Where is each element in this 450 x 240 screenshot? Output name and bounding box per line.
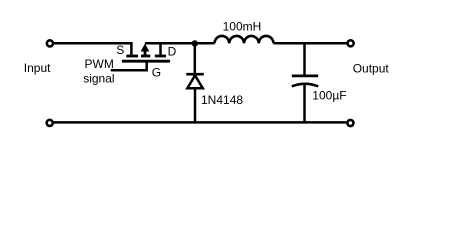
node A: diode junction dot [192, 40, 198, 46]
wire: diode anode to bottom rail [194, 88, 197, 122]
terminal: output bottom (circle) [347, 120, 353, 126]
terminal: input bottom (circle) [47, 120, 53, 126]
svg-text:100mH: 100mH [223, 20, 262, 34]
inductor L1 [215, 36, 274, 43]
svg-text:PWM: PWM [85, 57, 114, 71]
svg-text:G: G [152, 65, 161, 79]
diode D1 (cathode up) [186, 74, 204, 88]
terminal: input top (circle) [47, 40, 53, 46]
transistor Q1 MOSFET [122, 44, 170, 62]
wire: junction down to diode cathode [194, 44, 197, 74]
svg-text:Output: Output [353, 62, 390, 76]
svg-text:1N4148: 1N4148 [201, 93, 243, 107]
capacitor C1 [292, 76, 318, 86]
wire: top rail down to capacitor [303, 44, 306, 74]
svg-text:signal: signal [83, 72, 114, 86]
wire: input top rail to MOSFET source [54, 43, 131, 56]
wire: bottom rail [54, 121, 346, 124]
svg-text:100µF: 100µF [312, 89, 346, 103]
svg-text:S: S [116, 43, 124, 57]
wire: MOSFET drain rail to inductor [145, 42, 215, 45]
wire: gate lead [111, 62, 147, 70]
terminal: output top (circle) [348, 40, 354, 46]
svg-text:D: D [168, 44, 177, 58]
svg-text:Input: Input [24, 61, 51, 75]
wire: inductor to output terminal [274, 42, 347, 45]
wire: capacitor to bottom rail [303, 84, 306, 122]
